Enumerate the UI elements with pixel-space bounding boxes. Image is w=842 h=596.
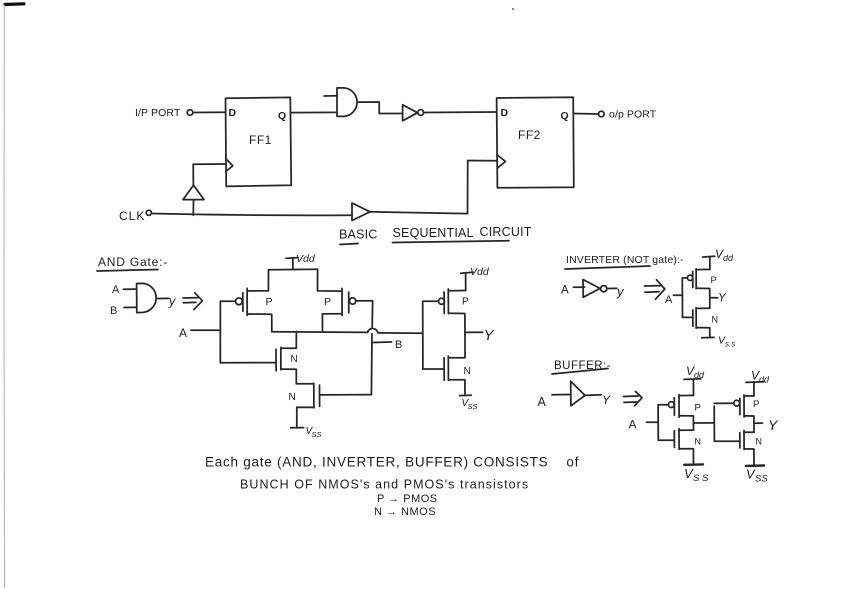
flip-flop FF2 box [497, 97, 574, 188]
transistor P1 gate bubble [236, 298, 243, 305]
wire Y node to N6 drain [744, 431, 754, 433]
transistor N3 gate bar [443, 358, 445, 381]
svg-text:BASIC: BASIC [339, 228, 378, 242]
note line 1 [205, 455, 579, 470]
FF1 pin D [229, 107, 237, 119]
svg-text:P: P [695, 403, 701, 414]
wire input to FF1 D [193, 111, 226, 113]
svg-text:AND Gate:-: AND Gate:- [98, 255, 168, 269]
transistor N6 gate bar [739, 433, 741, 448]
node A input AND symbol [112, 284, 137, 296]
wire y node lead inverter [710, 297, 718, 299]
svg-text:Y: Y [602, 393, 611, 407]
wire Y node lead buffer [754, 422, 763, 424]
transistor N4 gate bar [692, 310, 694, 326]
wire N6 source to Vss [744, 449, 754, 465]
wire N3 gate to input [423, 368, 444, 370]
svg-text:N: N [464, 366, 471, 377]
svg-text:Vdd: Vdd [296, 253, 316, 265]
inverter symbol G2 [583, 280, 607, 298]
power Vdd label AND schematic [286, 253, 316, 270]
transistor P1 gate bar [242, 293, 244, 311]
transistor N2 label N [289, 392, 296, 403]
transistor P1 label P [266, 296, 273, 308]
svg-text:P: P [462, 297, 469, 308]
wire Vdd to P4 drain [696, 268, 710, 270]
svg-text:dd: dd [759, 375, 770, 385]
wire Vdd top rail [269, 268, 318, 271]
svg-text:B: B [395, 339, 402, 351]
svg-text:Each gate (AND, INVERTER, BUFF: Each gate (AND, INVERTER, BUFFER) CONSIS… [205, 455, 579, 470]
flip-flop FF1 box [226, 97, 292, 186]
transistor N4 label N [712, 315, 719, 325]
wire P1 gate to node A [220, 300, 235, 302]
wire CLK to FF2 clock [468, 161, 497, 214]
node Y output label [484, 327, 495, 344]
transistor N4 channel [695, 308, 697, 328]
wire P2 drain to output rail [322, 314, 342, 332]
wire y node to N4 drain [696, 307, 710, 309]
transistor N2 channel [313, 383, 315, 408]
FF1 clock notch [226, 159, 233, 172]
AND gate symbol G1 [137, 283, 157, 312]
wire Y node lead [465, 331, 483, 333]
svg-text:CIRCUIT: CIRCUIT [480, 225, 532, 239]
node y output buffer symbol [585, 393, 611, 407]
wire N6 gate to stage 2 input [714, 440, 739, 442]
transistor P2 label P [324, 296, 331, 308]
wire Y node to N3 drain [448, 335, 465, 358]
node CLK label [119, 209, 145, 223]
wire P6 gate to stage 2 input [714, 402, 734, 404]
transistor P6 gate bubble [734, 400, 740, 406]
wire mid node to stage 2 gate [694, 422, 715, 424]
svg-text:N: N [291, 354, 298, 365]
svg-text:S S: S S [693, 473, 709, 484]
input terminal circle [187, 110, 193, 116]
wire P3 source to Y node [448, 313, 465, 335]
note line 2 [240, 478, 529, 492]
svg-text:A: A [629, 418, 637, 432]
node A input buffer symbol [538, 395, 571, 410]
AND Gate heading [97, 255, 168, 271]
wire FF1 Q to AND gate [290, 111, 335, 113]
scan corner mark [4, 4, 24, 588]
CLK terminal circle [146, 210, 151, 215]
svg-text:Y: Y [718, 293, 727, 305]
wire P5 source to mid node [679, 416, 693, 430]
node y output AND symbol [158, 295, 177, 309]
transistor P2 gate bar [348, 292, 350, 313]
svg-text:FF1: FF1 [249, 133, 272, 147]
transistor N3 label N [464, 366, 471, 377]
ground Vss AND schematic [291, 426, 322, 439]
ground Vss buffer stage 1 [684, 464, 709, 484]
transistor P5 channel [678, 395, 680, 418]
wire buffer to CLK line [192, 200, 194, 216]
power Vdd label inverter stage [461, 266, 490, 291]
transistor N6 label N [756, 437, 763, 447]
wire node B vertical [371, 301, 372, 395]
svg-text:SS: SS [468, 402, 478, 411]
svg-text:P: P [324, 296, 331, 308]
wire P5 gate to input vertical [658, 404, 668, 406]
wire N2 gate to node B [321, 394, 372, 396]
output terminal circle [599, 111, 605, 117]
wire mid node to N5 drain [679, 429, 693, 431]
transistor P2 gate bubble [349, 298, 355, 304]
transistor P1 channel [246, 288, 248, 315]
node y output label inverter [718, 293, 727, 305]
transistor N5 channel [678, 429, 680, 450]
transistor P6 channel [743, 395, 745, 417]
transistor N5 gate bar [673, 431, 675, 448]
svg-text:SEQUENTIAL: SEQUENTIAL [393, 226, 474, 240]
wire N3 source to Vss [448, 380, 465, 395]
svg-text:N: N [695, 437, 702, 447]
svg-text:Q: Q [561, 110, 569, 122]
ground Vss inverter [702, 335, 735, 349]
transistor P3 label P [462, 297, 469, 308]
wire P2 gate to node B line [356, 300, 373, 302]
clock buffer triangle FF1 [183, 185, 204, 199]
wire Vdd to P6 drain [744, 395, 754, 397]
implies arrow [183, 293, 202, 310]
svg-text:N: N [289, 392, 296, 403]
wire N4 source to Vss [696, 328, 710, 338]
transistor P3 gate bar [443, 292, 445, 314]
transistor P5 gate bubble [668, 402, 674, 408]
wire P4 source to y node [696, 288, 710, 308]
wire rail down to N1 drain [281, 331, 297, 348]
node A input inverter symbol [561, 285, 585, 297]
node B label and tick [372, 339, 402, 351]
transistor N2 gate bar [319, 385, 321, 406]
wire P1 drain to output rail [247, 314, 272, 332]
note line 3 [377, 493, 438, 505]
FF2 pin Q [561, 110, 569, 122]
wire inverter input vertical [681, 278, 683, 317]
svg-text:INVERTER (NOT gate):-: INVERTER (NOT gate):- [566, 254, 684, 266]
svg-text:SS: SS [755, 474, 768, 485]
FF2 pin D [501, 107, 509, 119]
transistor P3 channel [447, 289, 449, 314]
power Vdd label inverter [703, 247, 734, 269]
power Vdd label buffer stage 1 [684, 364, 705, 395]
svg-text:D: D [501, 107, 509, 119]
svg-text:y: y [616, 284, 625, 299]
svg-text:s.s: s.s [725, 340, 735, 349]
wire buffer input vertical [657, 405, 659, 440]
wire rail to PMOS P1 [247, 270, 268, 291]
title BASIC SEQUENTIAL CIRCUIT [339, 225, 532, 245]
inverter U2 [403, 105, 424, 121]
FF1 pin Q [278, 110, 286, 122]
implies arrow buffer [624, 392, 643, 406]
svg-text:SS: SS [312, 430, 322, 439]
ground Vss inverter stage [460, 395, 478, 411]
node Y output label buffer [768, 417, 779, 433]
svg-text:N: N [712, 315, 719, 325]
AND gate U1 [324, 88, 357, 117]
svg-text:D: D [229, 107, 237, 119]
node A input label inverter [665, 294, 682, 306]
node A input label [179, 326, 187, 340]
transistor P4 gate bubble [687, 275, 692, 280]
transistor N3 channel [447, 356, 449, 380]
wire A lead [191, 329, 220, 331]
svg-text:P: P [753, 399, 759, 410]
svg-text:Q: Q [278, 110, 286, 122]
wire A vertical to gates [219, 301, 221, 363]
implies arrow inverter [645, 280, 665, 299]
transistor P4 label P [711, 275, 717, 286]
svg-text:Y: Y [768, 417, 779, 433]
power Vdd label buffer stage 2 [746, 369, 770, 396]
svg-text:y: y [168, 295, 176, 309]
buffer symbol G3 [571, 381, 585, 406]
svg-text:A: A [112, 284, 120, 296]
transistor N5 label N [695, 437, 702, 447]
svg-text:P: P [711, 275, 717, 286]
svg-text:A: A [538, 395, 547, 409]
FF2 label [518, 128, 541, 142]
wire FF2 Q to output [574, 113, 599, 116]
svg-text:o/p PORT: o/p PORT [609, 109, 657, 121]
INVERTER heading [565, 254, 684, 269]
svg-text:dd: dd [723, 253, 734, 263]
FF1 label [249, 133, 272, 147]
BUFFER heading [552, 360, 611, 374]
wire AND to inverter [358, 102, 402, 114]
wire Vdd to P3 drain [448, 290, 465, 292]
node y output inverter symbol [607, 284, 625, 299]
wire N4 gate to input [683, 316, 693, 318]
ground Vss buffer stage 2 [746, 466, 769, 485]
wire N2 source to Vss [297, 407, 314, 427]
svg-text:P → PMOS: P → PMOS [377, 493, 438, 505]
clock line buffer triangle [352, 203, 370, 221]
svg-text:B: B [110, 305, 117, 317]
transistor P2 channel [341, 288, 343, 315]
wire N5 source to Vss [679, 449, 693, 465]
wire clock to FF1 [193, 164, 226, 186]
transistor P6 label P [753, 399, 759, 410]
transistor N1 gate bar [275, 349, 277, 371]
transistor N1 label N [291, 354, 298, 365]
wire inverter to FF2 D [424, 111, 497, 114]
wire CLK line left [152, 214, 353, 216]
transistor P5 gate bar [673, 398, 675, 415]
svg-text:I/P PORT: I/P PORT [135, 107, 181, 119]
svg-text:CLK: CLK [119, 209, 145, 223]
wire rail to PMOS P2 [318, 269, 343, 291]
svg-text:P: P [266, 296, 273, 308]
transistor P6 gate bar [739, 398, 741, 414]
svg-text:N → NMOS: N → NMOS [374, 506, 436, 518]
transistor N6 channel [743, 431, 745, 450]
svg-text:Y: Y [484, 327, 495, 344]
svg-text:A: A [561, 285, 569, 297]
wire P4 gate to input [682, 277, 687, 279]
svg-text:FF2: FF2 [518, 128, 541, 142]
node I/P PORT label [135, 107, 181, 119]
wire stage 2 input vertical [713, 406, 715, 441]
svg-text:A: A [179, 326, 187, 340]
wire inverter input vertical [422, 301, 424, 369]
wire CLK line right [370, 212, 468, 214]
FF2 clock notch [497, 155, 506, 169]
svg-text:A: A [665, 294, 673, 306]
wire N5 gate to input [658, 439, 674, 441]
transistor P4 channel [695, 269, 697, 289]
transistor P5 label P [695, 403, 701, 414]
transistor N1 channel [280, 347, 282, 369]
svg-text:BUNCH OF NMOS's and PMOS's tra: BUNCH OF NMOS's and PMOS's transistors [240, 478, 529, 492]
node O/P PORT label [609, 109, 657, 121]
scan speck [512, 8, 514, 10]
wire N1 source to N2 drain [281, 369, 314, 384]
wire NAND output rail with hop [272, 328, 423, 333]
wire Vdd to P5 drain [679, 394, 693, 396]
node A input label buffer [629, 418, 659, 432]
svg-text:N: N [756, 437, 763, 447]
transistor P4 gate bar [692, 271, 694, 287]
node B input AND symbol [110, 305, 137, 317]
wire A to N1 gate [220, 362, 275, 364]
transistor P3 gate bubble [439, 298, 445, 304]
wire P6 source to Y node [744, 416, 754, 432]
wire P3 gate to input [423, 300, 439, 302]
note line 4 [374, 506, 436, 518]
